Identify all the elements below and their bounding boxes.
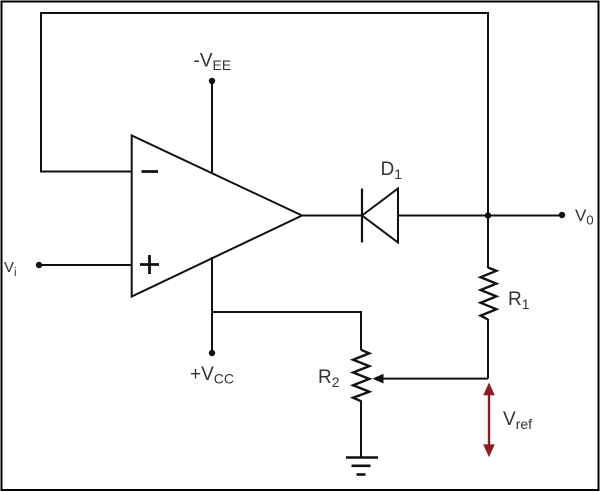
wire R2 to ground bbox=[360, 401, 362, 458]
wire op-amp output bbox=[302, 215, 362, 217]
potentiometer R2 bbox=[353, 350, 369, 401]
wire feedback left vertical bbox=[40, 13, 42, 172]
annotation Vref arrow bbox=[483, 383, 495, 458]
node V0 terminal bbox=[559, 212, 565, 218]
wire branch down to R2 bbox=[360, 311, 362, 350]
wire diode to output node bbox=[398, 215, 488, 217]
ground bbox=[346, 458, 378, 475]
diode D1 bbox=[362, 189, 398, 243]
wire output node to R1 bbox=[487, 216, 489, 269]
node +VCC terminal bbox=[209, 350, 215, 356]
wire wiper tap with arrowhead bbox=[373, 374, 489, 384]
node output junction bbox=[485, 212, 491, 218]
node Vi input terminal bbox=[36, 262, 42, 268]
wire inverting input bbox=[40, 171, 132, 173]
resistor R1 bbox=[481, 268, 497, 320]
wire R1 to wiper line bbox=[487, 319, 489, 379]
node -VEE terminal bbox=[209, 78, 215, 84]
wire VCC branch horizontal bbox=[212, 311, 361, 313]
wire feedback right vertical bbox=[487, 12, 489, 215]
op-amp U1 bbox=[132, 136, 302, 297]
wire feedback top horizontal bbox=[40, 12, 489, 14]
wire non-inverting input bbox=[39, 264, 132, 266]
wire output node to V0 terminal bbox=[488, 215, 562, 217]
wire -VEE supply bbox=[211, 81, 213, 174]
wire +VCC supply bbox=[211, 257, 213, 353]
